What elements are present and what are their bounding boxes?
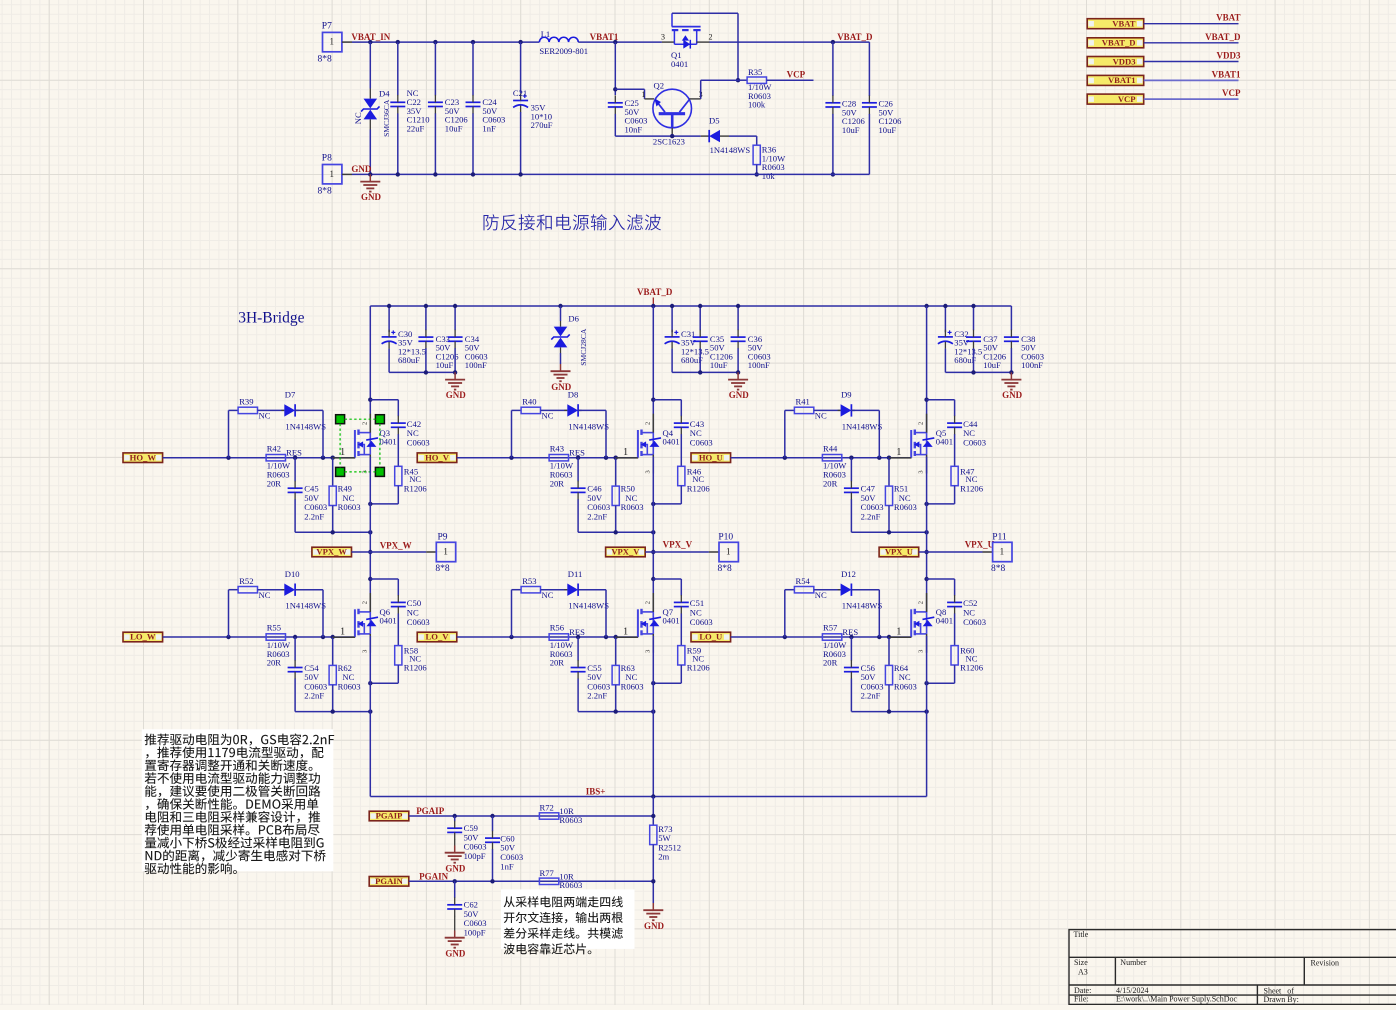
ground symbol R73	[652, 903, 654, 910]
svg-text:C21: C21	[513, 88, 527, 98]
svg-text:VCP: VCP	[1118, 94, 1136, 104]
svg-text:VCP: VCP	[1222, 88, 1241, 98]
wire Q1 gate loop	[672, 12, 738, 14]
wire to diode	[814, 589, 841, 591]
connector P11	[993, 542, 1012, 561]
svg-text:R0603: R0603	[894, 502, 917, 512]
ground symbol cap bank	[737, 372, 739, 379]
transistor Q3 N-MOSFET	[354, 430, 356, 458]
wire HO_U line	[731, 457, 912, 459]
svg-text:100k: 100k	[748, 100, 766, 110]
svg-text:10uF: 10uF	[436, 360, 454, 370]
resistor R77	[539, 878, 558, 884]
svg-text:HO_W: HO_W	[130, 452, 157, 462]
svg-text:GND: GND	[361, 192, 382, 202]
diode D11	[567, 584, 578, 596]
svg-text:NC: NC	[815, 590, 827, 600]
svg-text:VPX_U: VPX_U	[885, 547, 913, 557]
svg-text:2.2nF: 2.2nF	[304, 691, 324, 701]
svg-text:R1206: R1206	[687, 663, 711, 673]
wire W source to shunt rail	[369, 636, 371, 797]
svg-text:0401: 0401	[671, 59, 688, 69]
svg-text:R1206: R1206	[404, 663, 428, 673]
svg-text:1: 1	[726, 547, 731, 557]
svg-text:2: 2	[918, 601, 925, 604]
svg-text:1N4148WS: 1N4148WS	[842, 601, 883, 611]
capacitor C46	[577, 458, 579, 482]
svg-text:R0603: R0603	[894, 682, 917, 692]
wire gate branch up	[511, 590, 513, 637]
junction dots on GND rail	[368, 172, 372, 176]
svg-text:RES: RES	[569, 448, 585, 458]
svg-text:1N4148WS: 1N4148WS	[285, 421, 326, 431]
wire cap bank bottom	[389, 371, 455, 373]
svg-text:C0603: C0603	[407, 438, 430, 448]
ground symbol D6	[560, 364, 562, 371]
section title text	[484, 214, 661, 230]
svg-text:D6: D6	[568, 313, 579, 323]
svg-text:LO_V: LO_V	[426, 632, 450, 642]
svg-text:1: 1	[340, 447, 345, 458]
svg-text:GND: GND	[446, 390, 467, 400]
svg-text:P10: P10	[718, 533, 733, 543]
svg-text:PGAIN: PGAIN	[419, 871, 449, 881]
svg-text:R44: R44	[823, 443, 838, 453]
diode D12	[841, 584, 852, 596]
svg-text:VBAT1: VBAT1	[1212, 69, 1241, 79]
transistor Q8 N-MOSFET	[910, 609, 912, 637]
wire diode return	[578, 409, 582, 411]
svg-text:VDD3: VDD3	[1217, 51, 1241, 61]
connector P10	[719, 542, 738, 561]
svg-text:P7: P7	[322, 21, 332, 31]
capacitor C34	[454, 306, 456, 330]
TVS diode D6	[558, 304, 562, 308]
svg-text:PGAIP: PGAIP	[416, 806, 445, 816]
resistor R62	[332, 637, 334, 665]
junction dots cap bank top	[943, 304, 947, 308]
svg-text:1: 1	[330, 37, 335, 47]
wire phase drain vertical	[652, 306, 654, 433]
resistor R51	[888, 458, 890, 486]
capacitor C42	[397, 400, 399, 417]
port PGAIP	[369, 811, 409, 821]
selection highlight Q3	[336, 415, 345, 424]
svg-text:3: 3	[644, 470, 651, 473]
svg-text:2: 2	[361, 422, 368, 425]
svg-text:8*8: 8*8	[991, 564, 1006, 574]
svg-text:R43: R43	[550, 443, 564, 453]
svg-text:10uF: 10uF	[842, 125, 860, 135]
capacitor C47	[850, 458, 852, 482]
wire IBS+ rail	[370, 796, 926, 798]
wire gate branch up	[228, 590, 230, 637]
svg-text:2.2nF: 2.2nF	[861, 511, 881, 521]
svg-text:1: 1	[340, 627, 345, 638]
wire gate branch up	[228, 410, 230, 457]
port VBAT1	[1087, 75, 1144, 85]
port LO_V	[417, 632, 457, 642]
capacitor C24	[472, 42, 474, 95]
svg-text:1: 1	[623, 447, 628, 458]
svg-text:2: 2	[918, 422, 925, 425]
connector P9	[436, 542, 455, 561]
resistor R44	[822, 455, 841, 461]
svg-text:1: 1	[896, 627, 901, 638]
port VDD3	[1087, 57, 1144, 67]
svg-text:GND: GND	[445, 863, 466, 873]
svg-text:VBAT_D: VBAT_D	[1205, 32, 1241, 42]
capacitor C22	[397, 42, 399, 95]
wire diode return	[295, 589, 299, 591]
resistor R63	[615, 637, 617, 665]
wire VCP	[1144, 98, 1239, 100]
svg-text:R0603: R0603	[559, 880, 582, 890]
capacitor C56	[850, 637, 852, 661]
svg-text:VPX_V: VPX_V	[663, 540, 693, 550]
svg-text:R1206: R1206	[404, 483, 428, 493]
svg-text:680uF: 680uF	[398, 355, 420, 365]
svg-text:R1206: R1206	[687, 483, 711, 493]
capacitor C32 polarized	[944, 306, 946, 332]
svg-text:RES: RES	[286, 448, 302, 458]
wire cgs bottom	[295, 531, 370, 533]
svg-text:8*8: 8*8	[318, 187, 333, 197]
TVS diode D4	[364, 99, 378, 109]
wire phase drain vertical	[926, 306, 928, 433]
wire PGAIP line	[409, 815, 653, 817]
svg-text:1N4148WS: 1N4148WS	[710, 145, 751, 155]
svg-text:NC: NC	[353, 112, 363, 124]
svg-text:1: 1	[896, 447, 901, 458]
svg-text:1nF: 1nF	[482, 123, 496, 133]
svg-text:1: 1	[623, 627, 628, 638]
capacitor C51	[680, 579, 682, 596]
resistor R41	[794, 407, 813, 413]
capacitor C55	[577, 637, 579, 661]
svg-text:1N4148WS: 1N4148WS	[568, 601, 609, 611]
wire to diode	[814, 409, 841, 411]
capacitor C60	[492, 816, 494, 831]
svg-text:PGAIN: PGAIN	[375, 876, 403, 886]
svg-text:R54: R54	[796, 576, 811, 586]
svg-text:RES: RES	[842, 627, 858, 637]
svg-text:20R: 20R	[550, 658, 565, 668]
svg-text:2m: 2m	[658, 852, 669, 862]
svg-text:Drawn By:: Drawn By:	[1264, 995, 1299, 1004]
svg-text:Q2: Q2	[654, 81, 665, 91]
svg-text:1N4148WS: 1N4148WS	[842, 421, 883, 431]
capacitor C54	[294, 637, 296, 661]
wire VBAT1	[1144, 79, 1239, 81]
svg-text:GND: GND	[729, 390, 750, 400]
transistor Q1 P-MOSFET	[662, 41, 675, 43]
capacitor C31 polarized	[671, 306, 673, 332]
port VBAT	[1087, 19, 1144, 29]
wire phase source vertical	[369, 457, 371, 613]
resistor R49	[332, 458, 334, 486]
svg-text:0401: 0401	[663, 616, 680, 626]
svg-text:D8: D8	[568, 390, 579, 400]
svg-text:10k: 10k	[762, 171, 776, 181]
wire D5 to R36	[729, 135, 757, 137]
capacitor C50	[397, 579, 399, 596]
svg-text:2: 2	[644, 422, 651, 425]
svg-text:GND: GND	[644, 921, 665, 931]
svg-text:2.2nF: 2.2nF	[587, 511, 607, 521]
wire drain tap	[651, 577, 655, 581]
svg-text:3: 3	[661, 33, 665, 42]
wire to diode	[258, 589, 285, 591]
wire R73 column	[652, 797, 654, 825]
svg-text:PGAIP: PGAIP	[376, 811, 403, 821]
svg-text:20R: 20R	[267, 658, 282, 668]
transistor Q4 N-MOSFET	[637, 430, 639, 458]
svg-text:R0603: R0603	[338, 502, 361, 512]
svg-text:R39: R39	[239, 397, 253, 407]
svg-text:SMCJ36CA: SMCJ36CA	[382, 99, 391, 137]
resistor R59	[678, 646, 685, 665]
capacitor C37	[973, 306, 975, 330]
junction dots cap bank top	[670, 304, 674, 308]
wire phase source vertical	[652, 457, 654, 613]
junction dots VBAT_D rail	[651, 304, 655, 308]
svg-text:File:: File:	[1074, 995, 1089, 1004]
svg-text:2SC1623: 2SC1623	[653, 137, 685, 147]
capacitor C35	[699, 306, 701, 330]
svg-text:GND: GND	[1002, 390, 1023, 400]
resistor R39	[238, 407, 257, 413]
port VBAT_D	[1087, 38, 1144, 48]
svg-text:0401: 0401	[380, 616, 397, 626]
wire PGAIN line	[409, 880, 653, 882]
svg-text:Size: Size	[1074, 958, 1088, 967]
port VPX_V	[606, 547, 646, 557]
port HO_W	[123, 453, 163, 463]
svg-text:20R: 20R	[267, 478, 282, 488]
capacitor C28	[832, 42, 834, 96]
capacitor C62	[454, 881, 456, 898]
capacitor C26	[868, 42, 870, 96]
svg-text:1N4148WS: 1N4148WS	[285, 601, 326, 611]
ground symbol C59	[454, 846, 456, 853]
svg-text:SMCJ28CA: SMCJ28CA	[579, 328, 588, 366]
junction VBAT1 column	[613, 40, 617, 44]
svg-text:VPX_V: VPX_V	[611, 547, 640, 557]
svg-text:HO_V: HO_V	[425, 452, 450, 462]
title block	[1069, 930, 1396, 1005]
wire GND rail	[342, 173, 352, 175]
svg-text:NC: NC	[542, 590, 554, 600]
svg-text:D9: D9	[841, 390, 852, 400]
svg-text:GND: GND	[351, 164, 372, 174]
svg-text:VBAT: VBAT	[1216, 13, 1240, 23]
svg-text:2: 2	[644, 601, 651, 604]
wire drain tap	[924, 398, 928, 402]
wire cgs bottom	[851, 711, 926, 713]
svg-text:0401: 0401	[380, 436, 397, 446]
svg-text:VCP: VCP	[787, 70, 806, 80]
wire cgs bottom	[295, 711, 370, 713]
svg-text:8*8: 8*8	[718, 564, 733, 574]
transistor Q6 N-MOSFET	[354, 609, 356, 637]
resistor R36	[753, 145, 760, 164]
capacitor C38	[1010, 306, 1012, 330]
capacitor C43	[680, 400, 682, 417]
diode D8	[567, 404, 578, 416]
svg-text:D5: D5	[709, 116, 720, 126]
svg-text:VBAT: VBAT	[1112, 19, 1136, 29]
wire HO_V line	[457, 457, 639, 459]
wire diode return	[295, 409, 299, 411]
svg-text:C0603: C0603	[963, 438, 986, 448]
capacitor C36	[737, 306, 739, 330]
wire VDD3	[1144, 61, 1239, 63]
svg-text:1: 1	[642, 90, 646, 99]
svg-text:20R: 20R	[823, 478, 838, 488]
wire VPX_W	[352, 551, 427, 553]
wire D4 column	[369, 42, 371, 88]
svg-text:R40: R40	[522, 397, 536, 407]
port LO_W	[123, 632, 163, 642]
transistor Q7 N-MOSFET	[637, 609, 639, 637]
wire VBAT	[1144, 23, 1239, 25]
wire L1 to Q1	[578, 41, 662, 43]
wire Q2 emitter line	[615, 135, 701, 137]
ground symbol	[369, 174, 371, 181]
wire drain tap	[368, 577, 372, 581]
resistor R73 shunt	[650, 825, 657, 844]
wire Q1 drain to VBAT_D	[710, 41, 870, 43]
wire drain tap	[651, 398, 655, 402]
svg-text:100nF: 100nF	[748, 360, 770, 370]
wire diode return	[578, 589, 582, 591]
port PGAIN	[369, 877, 409, 887]
resistor R72	[539, 813, 558, 819]
wire diode return	[851, 589, 855, 591]
svg-text:VBAT_D: VBAT_D	[837, 32, 873, 42]
svg-text:NC: NC	[542, 411, 554, 421]
ground symbol cap bank	[1010, 372, 1012, 379]
svg-text:P9: P9	[438, 533, 448, 543]
svg-text:100nF: 100nF	[1021, 360, 1043, 370]
svg-text:3: 3	[918, 470, 925, 473]
resistor R54	[794, 587, 813, 593]
svg-text:R52: R52	[239, 576, 253, 586]
svg-text:P11: P11	[992, 533, 1007, 543]
svg-text:1N4148WS: 1N4148WS	[568, 421, 609, 431]
svg-text:C0603: C0603	[963, 617, 986, 627]
capacitor C30 polarized	[388, 306, 390, 332]
svg-text:RES: RES	[569, 627, 585, 637]
svg-text:10uF: 10uF	[879, 125, 897, 135]
svg-text:270uF: 270uF	[531, 120, 553, 130]
svg-text:SER2009-801: SER2009-801	[539, 46, 588, 56]
svg-text:R0603: R0603	[338, 682, 361, 692]
resistor R56	[549, 634, 568, 640]
resistor R60	[951, 646, 958, 665]
resistor R52	[238, 587, 257, 593]
svg-text:8*8: 8*8	[318, 54, 333, 64]
capacitor C59	[454, 816, 456, 821]
wire Q2 base path	[615, 88, 644, 90]
wire LO_W line	[163, 636, 356, 638]
wire diode return	[851, 409, 855, 411]
capacitor C25	[608, 102, 623, 104]
resistor R58	[395, 646, 402, 665]
svg-text:100pF: 100pF	[464, 851, 486, 861]
capacitor C52	[954, 579, 956, 596]
svg-text:D12: D12	[841, 569, 856, 579]
svg-text:2: 2	[361, 601, 368, 604]
svg-text:2.2nF: 2.2nF	[587, 691, 607, 701]
svg-text:VPX_U: VPX_U	[965, 540, 995, 550]
svg-text:IBS+: IBS+	[586, 786, 606, 796]
svg-text:Title: Title	[1074, 930, 1089, 939]
svg-text:E:\work\..\Main Power Suply.Sc: E:\work\..\Main Power Suply.SchDoc	[1116, 995, 1237, 1004]
transistor Q5 N-MOSFET	[910, 430, 912, 458]
resistor R42	[266, 455, 285, 461]
svg-text:R1206: R1206	[960, 663, 984, 673]
wire drain tap	[924, 577, 928, 581]
resistor R40	[521, 407, 540, 413]
svg-text:1: 1	[330, 169, 335, 179]
ground symbol C62	[454, 931, 456, 938]
svg-text:1: 1	[1000, 547, 1005, 557]
svg-text:D11: D11	[568, 569, 582, 579]
wire gate branch up	[784, 590, 786, 637]
wire gate branch up	[784, 410, 786, 457]
resistor R45	[395, 466, 402, 485]
svg-text:VDD3: VDD3	[1113, 56, 1136, 66]
diode D9	[841, 404, 852, 416]
svg-text:C0603: C0603	[690, 617, 713, 627]
svg-text:8*8: 8*8	[435, 564, 450, 574]
svg-text:C0603: C0603	[407, 617, 430, 627]
resistor R46	[678, 466, 685, 485]
svg-text:3H-Bridge: 3H-Bridge	[238, 309, 304, 326]
svg-text:100pF: 100pF	[464, 928, 486, 938]
resistor R53	[521, 587, 540, 593]
resistor R55	[266, 634, 285, 640]
wire cgs bottom	[578, 711, 653, 713]
svg-text:A3: A3	[1078, 968, 1088, 977]
connector P7	[323, 32, 342, 51]
svg-text:VBAT_D: VBAT_D	[637, 287, 673, 297]
svg-text:HO_U: HO_U	[699, 452, 723, 462]
wire gate branch up	[511, 410, 513, 457]
port HO_U	[691, 453, 731, 463]
wire cgs bottom	[851, 531, 926, 533]
wire LO_V line	[457, 636, 639, 638]
capacitor C45	[294, 458, 296, 482]
port VPX_W	[312, 547, 352, 557]
svg-text:R0603: R0603	[559, 815, 582, 825]
port VCP	[1087, 94, 1144, 104]
svg-text:NC: NC	[259, 411, 271, 421]
svg-text:Sheet of: Sheet of	[1264, 986, 1295, 995]
resistor R35	[738, 79, 747, 81]
svg-text:22uF: 22uF	[407, 123, 425, 133]
diode D5	[701, 135, 709, 137]
svg-text:R77: R77	[540, 868, 555, 878]
wire HO_W line	[163, 457, 356, 459]
wire cgs bottom	[578, 531, 653, 533]
svg-text:0401: 0401	[936, 616, 953, 626]
svg-text:D7: D7	[285, 390, 296, 400]
capacitor C21 polarized	[520, 42, 522, 93]
annotation note 2	[501, 889, 635, 949]
